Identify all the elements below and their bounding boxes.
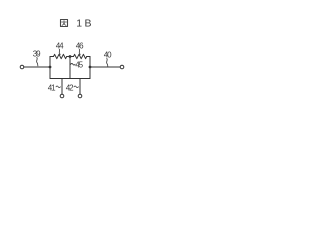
svg-text:41: 41 [48, 83, 56, 92]
terminal 41 circle [60, 94, 64, 98]
terminal 39 circle [20, 65, 24, 69]
wire top-right lead [87, 56, 90, 58]
wire left edge [49, 57, 51, 79]
svg-text:42: 42 [66, 83, 74, 92]
svg-text:46: 46 [76, 41, 84, 50]
wire bottom rail [50, 78, 90, 80]
wire right edge [89, 57, 91, 79]
wire node 45 down [69, 57, 71, 79]
leader 46 [78, 49, 81, 54]
resistor 46 [74, 54, 87, 58]
svg-text:B: B [85, 17, 92, 29]
wire between resistors [67, 56, 74, 58]
terminal 42 circle [78, 94, 82, 98]
node 45 junction [69, 55, 72, 58]
leader 45 tilde [71, 64, 75, 66]
figure icon (zu glyph) [61, 20, 68, 27]
wire top-left lead [50, 56, 54, 58]
wire stub 41 [61, 79, 63, 95]
label 1 B [76, 17, 91, 29]
svg-text:45: 45 [75, 60, 83, 69]
wire node to right terminal [90, 66, 120, 68]
wire left terminal to node [24, 66, 50, 68]
resistor 44 [54, 54, 67, 58]
leader 41 tilde [56, 86, 60, 88]
terminal 40 circle [120, 65, 124, 69]
svg-text:1: 1 [76, 17, 82, 29]
node right junction [89, 66, 92, 69]
node left junction [49, 66, 52, 69]
svg-text:44: 44 [56, 41, 64, 50]
leader 44 [58, 49, 61, 54]
leader 42 tilde [74, 86, 78, 88]
svg-text:39: 39 [33, 49, 41, 58]
leader 40 [107, 58, 108, 67]
leader 39 [37, 57, 38, 66]
wire stub 42 [79, 79, 81, 95]
svg-text:40: 40 [104, 50, 112, 59]
